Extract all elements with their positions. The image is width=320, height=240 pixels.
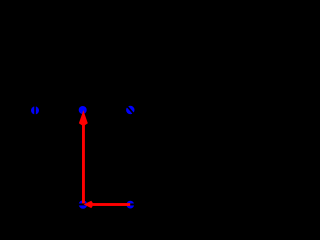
red horizontal arrow shaft [93,203,130,206]
red vertical arrow shaft [82,124,85,205]
occluding black diagonal line through P3 [126,105,135,115]
point marker P5 (bottom-right blue disc) [126,201,134,209]
point marker P1 (top-left blue disc) [31,106,39,114]
occluding black horizontal axis line through P4 and P5 [60,203,150,205]
red horizontal arrow head (kite) [84,201,94,208]
occluding black vertical line through P1 [34,101,36,120]
point marker P3 (top-right blue disc) [126,106,134,114]
point marker P2 (top-middle blue disc) [79,106,87,114]
point marker P4 (bottom-left blue disc) [79,200,88,209]
red vertical arrow head (kite) [79,110,88,126]
